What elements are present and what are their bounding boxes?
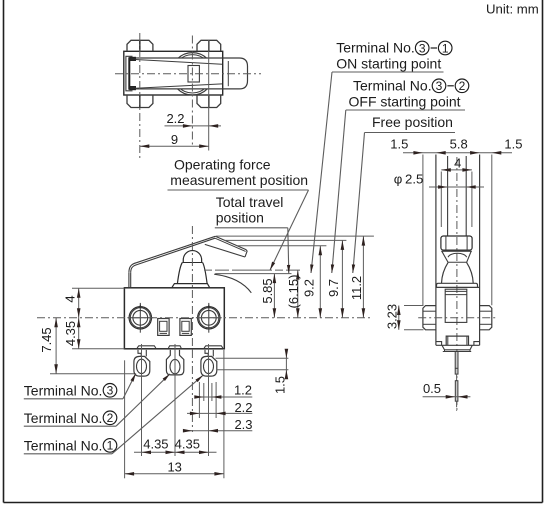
svg-text:4: 4 bbox=[454, 156, 461, 171]
terminal 1 neck and hook bbox=[205, 350, 208, 357]
terminal 1 ring bbox=[201, 356, 217, 376]
svg-text:4: 4 bbox=[63, 295, 78, 302]
dimension 4 (side view) bbox=[441, 169, 472, 171]
terminal 1 hole edge lines for 1.5 dim bbox=[216, 357, 289, 359]
svg-text:Unit: mm: Unit: mm bbox=[486, 2, 539, 17]
front view: switch body bbox=[124, 288, 224, 349]
side view: plunger bell right bbox=[467, 262, 474, 283]
side view: terminal base block bbox=[446, 336, 468, 345]
reference line: OFF starting point bbox=[225, 239, 347, 241]
svg-text:1.5: 1.5 bbox=[390, 137, 408, 152]
terminal 3 ring bbox=[134, 356, 150, 376]
extension line body right bbox=[223, 350, 225, 478]
dimension 1.2 bbox=[195, 396, 253, 398]
svg-text:2.2: 2.2 bbox=[234, 400, 252, 415]
svg-text:3: 3 bbox=[107, 384, 114, 398]
side view: inner window bbox=[445, 289, 467, 322]
side view: curl box bottom double line bbox=[441, 250, 472, 252]
front view: vertical centerline through plunger bbox=[191, 226, 193, 350]
dimension 9 (top view) bbox=[140, 145, 209, 147]
side view: centerline vertical bbox=[456, 157, 458, 411]
svg-text:0.5: 0.5 bbox=[423, 381, 441, 396]
dimension 4 / 4.35 line bbox=[78, 288, 80, 349]
dimension 4 (front left) extension top bbox=[72, 287, 124, 289]
extension line body left bbox=[124, 360, 126, 478]
extension lines 2.2 bbox=[198, 382, 200, 418]
svg-text:OFF starting point: OFF starting point bbox=[349, 93, 461, 109]
dimension (6.15) bbox=[297, 270, 299, 318]
svg-text:3: 3 bbox=[419, 41, 426, 55]
extension lines 1.2 bbox=[203, 383, 205, 401]
svg-text:Terminal No.: Terminal No. bbox=[24, 410, 103, 426]
top view: lever taper edge lower bbox=[136, 84, 223, 88]
svg-text:9: 9 bbox=[171, 132, 178, 147]
side view: extension lines 4mm bbox=[440, 172, 442, 228]
dimension phi 2.5 bbox=[429, 186, 484, 188]
side view: pin centerline below bbox=[456, 401, 458, 411]
svg-text:5.85: 5.85 bbox=[260, 278, 275, 303]
dimension 7.45 extension bottom bbox=[50, 373, 135, 375]
svg-text:9.7: 9.7 bbox=[326, 279, 341, 297]
dimension 3.23 bbox=[404, 305, 424, 307]
svg-text:2: 2 bbox=[459, 79, 466, 93]
reference line: free position bbox=[216, 235, 374, 237]
extension line terminal 2 center bbox=[174, 344, 176, 456]
top view: left inner recess bbox=[126, 56, 133, 91]
svg-text:4.35: 4.35 bbox=[63, 321, 78, 346]
svg-text:3.23: 3.23 bbox=[385, 304, 400, 329]
side view: dome crown arc bbox=[448, 253, 467, 257]
side view: dome neck trapezoid bbox=[442, 251, 448, 262]
border frame bottom bbox=[4, 502, 543, 504]
side view: outer extension left (1.5) bbox=[422, 155, 424, 306]
front view: window 2 bbox=[180, 319, 191, 336]
front view: plunger dome cap bbox=[183, 251, 202, 263]
svg-text:(6.15): (6.15) bbox=[286, 275, 301, 309]
front view: plunger bell shoulder line bbox=[182, 262, 202, 264]
terminal 1 hole bbox=[204, 359, 214, 373]
top view: extension line right nut column bbox=[208, 40, 210, 151]
front view: lever rising arm (pair) bbox=[129, 236, 215, 272]
dimension 5.85 bbox=[273, 274, 275, 318]
svg-text:1: 1 bbox=[442, 41, 449, 55]
extension line terminal 3 center bbox=[141, 344, 143, 456]
side view: body right edge bbox=[479, 155, 481, 346]
svg-text:φ 2.5: φ 2.5 bbox=[394, 172, 424, 187]
side view: body bottom edge bbox=[436, 344, 480, 346]
side view: terminal pin break bbox=[456, 374, 458, 381]
front view: plunger base plate bbox=[172, 284, 210, 288]
side view: outer extension right (1.5) bbox=[491, 155, 493, 306]
svg-text:4.35: 4.35 bbox=[175, 436, 200, 451]
side view: plunger bell left bbox=[442, 262, 449, 283]
top view: hex nut top-right bbox=[197, 40, 221, 51]
pressed lever phantom curve bbox=[214, 274, 251, 293]
side view: body top edge bbox=[436, 286, 480, 288]
front view: plunger bell left side bbox=[177, 263, 182, 284]
svg-text:1: 1 bbox=[107, 439, 114, 453]
top view: hex nut top-left bbox=[127, 40, 153, 51]
extension line terminal 1 center bbox=[208, 344, 210, 456]
svg-text:1.2: 1.2 bbox=[234, 382, 252, 397]
terminal 2 neck and ring bbox=[166, 350, 183, 375]
svg-text:Free position: Free position bbox=[372, 114, 453, 130]
dimension 4.35 extension bottom bbox=[72, 348, 124, 350]
top view: vertical centerline plunger bbox=[191, 36, 193, 146]
top view: hex nut bottom-right bbox=[197, 95, 221, 108]
dimension 4.35 / 4.35 bbox=[134, 451, 217, 453]
dimension 11.2 bbox=[362, 236, 364, 318]
front view: mounting hole right bbox=[198, 307, 220, 329]
top view: lever bend line in tip bbox=[227, 61, 229, 86]
svg-text:Operating force: Operating force bbox=[174, 157, 271, 173]
svg-text:11.2: 11.2 bbox=[349, 276, 364, 300]
front view: lever attachment verticals bbox=[128, 273, 130, 288]
svg-text:13: 13 bbox=[167, 459, 181, 474]
terminal 3 tab bbox=[137, 346, 156, 348]
side view: bottom corner notch left bbox=[436, 342, 442, 346]
svg-text:5.8: 5.8 bbox=[450, 137, 468, 152]
dimension 9.2 bbox=[319, 246, 321, 318]
side view: bottom corner notch right bbox=[474, 342, 480, 346]
side view: lever curl box bbox=[441, 236, 472, 250]
svg-text:ON starting point: ON starting point bbox=[336, 56, 441, 72]
border frame left bbox=[3, 0, 5, 503]
svg-text:Terminal No.: Terminal No. bbox=[24, 438, 103, 454]
side view: flange plate bbox=[437, 283, 478, 287]
terminal 1 tab bbox=[204, 346, 223, 348]
svg-text:2: 2 bbox=[107, 411, 114, 425]
terminal 3 hole bbox=[137, 359, 147, 373]
top view: vertical centerline left nut column bbox=[139, 33, 141, 159]
front view: lever tip lower leg bbox=[205, 244, 245, 257]
top view: lever clamp bar bbox=[128, 57, 130, 89]
terminal 2 hole bbox=[170, 359, 180, 373]
side view: terminal pin lower bbox=[455, 381, 458, 402]
front view: lever tip upper leg (pair) bbox=[215, 236, 246, 250]
svg-text:9.2: 9.2 bbox=[302, 279, 317, 297]
dimension 9.7 bbox=[341, 240, 343, 317]
svg-text:Terminal No.: Terminal No. bbox=[24, 383, 103, 399]
side view: terminal pin upper bbox=[455, 352, 458, 375]
svg-text:4.35: 4.35 bbox=[143, 436, 168, 451]
svg-text:1.5: 1.5 bbox=[504, 137, 522, 152]
front view: mounting hole left bbox=[129, 307, 151, 329]
top view: lever taper edge upper bbox=[136, 60, 223, 65]
dimension 7.45 line bbox=[55, 318, 57, 374]
svg-text:2.2: 2.2 bbox=[166, 111, 184, 126]
dimension 1.5 / 5.8 / 1.5 (side view top) bbox=[403, 152, 512, 154]
dimension 2.3 bbox=[187, 430, 253, 432]
side view: lever strip edges bbox=[447, 156, 449, 236]
top view: plunger circle outer arcs bbox=[171, 53, 213, 95]
side view: bottom plate bbox=[442, 345, 472, 350]
top view: switch body (top) bbox=[124, 51, 223, 95]
svg-text:7.45: 7.45 bbox=[39, 327, 54, 352]
svg-text:Total travel: Total travel bbox=[216, 194, 284, 210]
top view: clamp block lower bbox=[130, 87, 136, 90]
svg-text:measurement position: measurement position bbox=[170, 172, 308, 188]
top view: center small rectangle bbox=[188, 66, 199, 83]
terminal 3 neck and hook bbox=[138, 350, 141, 357]
front view: window 1 bbox=[158, 319, 169, 336]
svg-text:3: 3 bbox=[436, 79, 443, 93]
dimension 0.5 bbox=[423, 396, 471, 398]
side view: horizontal centerline through nuts bbox=[418, 317, 495, 319]
reference line: operating force measurement position (6.15) bbox=[204, 269, 303, 271]
front view: plunger bell right side bbox=[203, 263, 208, 284]
svg-text:Terminal No.: Terminal No. bbox=[336, 40, 415, 56]
top view: lever outline with rounded tip bbox=[136, 58, 248, 89]
dimension 1.5 (terminal) bbox=[285, 351, 287, 378]
front view: lever tip end face bbox=[245, 250, 247, 257]
svg-text:Terminal No.: Terminal No. bbox=[353, 77, 432, 93]
svg-text:2.3: 2.3 bbox=[234, 417, 252, 432]
top view: clamp block upper bbox=[130, 57, 136, 60]
terminal 2 tab bbox=[168, 346, 181, 348]
top view: hex nut bottom-left bbox=[127, 95, 153, 108]
side view: body left edge bbox=[435, 155, 437, 346]
dimension 2.2 (bottom) bbox=[187, 412, 252, 414]
side view: hex nut left bbox=[423, 306, 436, 330]
svg-text:1.5: 1.5 bbox=[273, 376, 288, 394]
top view: horizontal centerline bbox=[115, 73, 261, 75]
reference line: ON starting point bbox=[237, 245, 327, 247]
dimension 2.2 (top view) bbox=[165, 125, 222, 127]
border frame right bbox=[542, 0, 544, 503]
dimension 13 bbox=[125, 473, 224, 475]
front view: horizontal centerline bbox=[37, 317, 370, 319]
side view: hex nut right bbox=[480, 306, 492, 330]
reference line: total travel position (5.85) bbox=[215, 273, 291, 275]
extension line plunger center (dash-dot) bbox=[191, 350, 193, 432]
svg-text:position: position bbox=[216, 210, 264, 226]
